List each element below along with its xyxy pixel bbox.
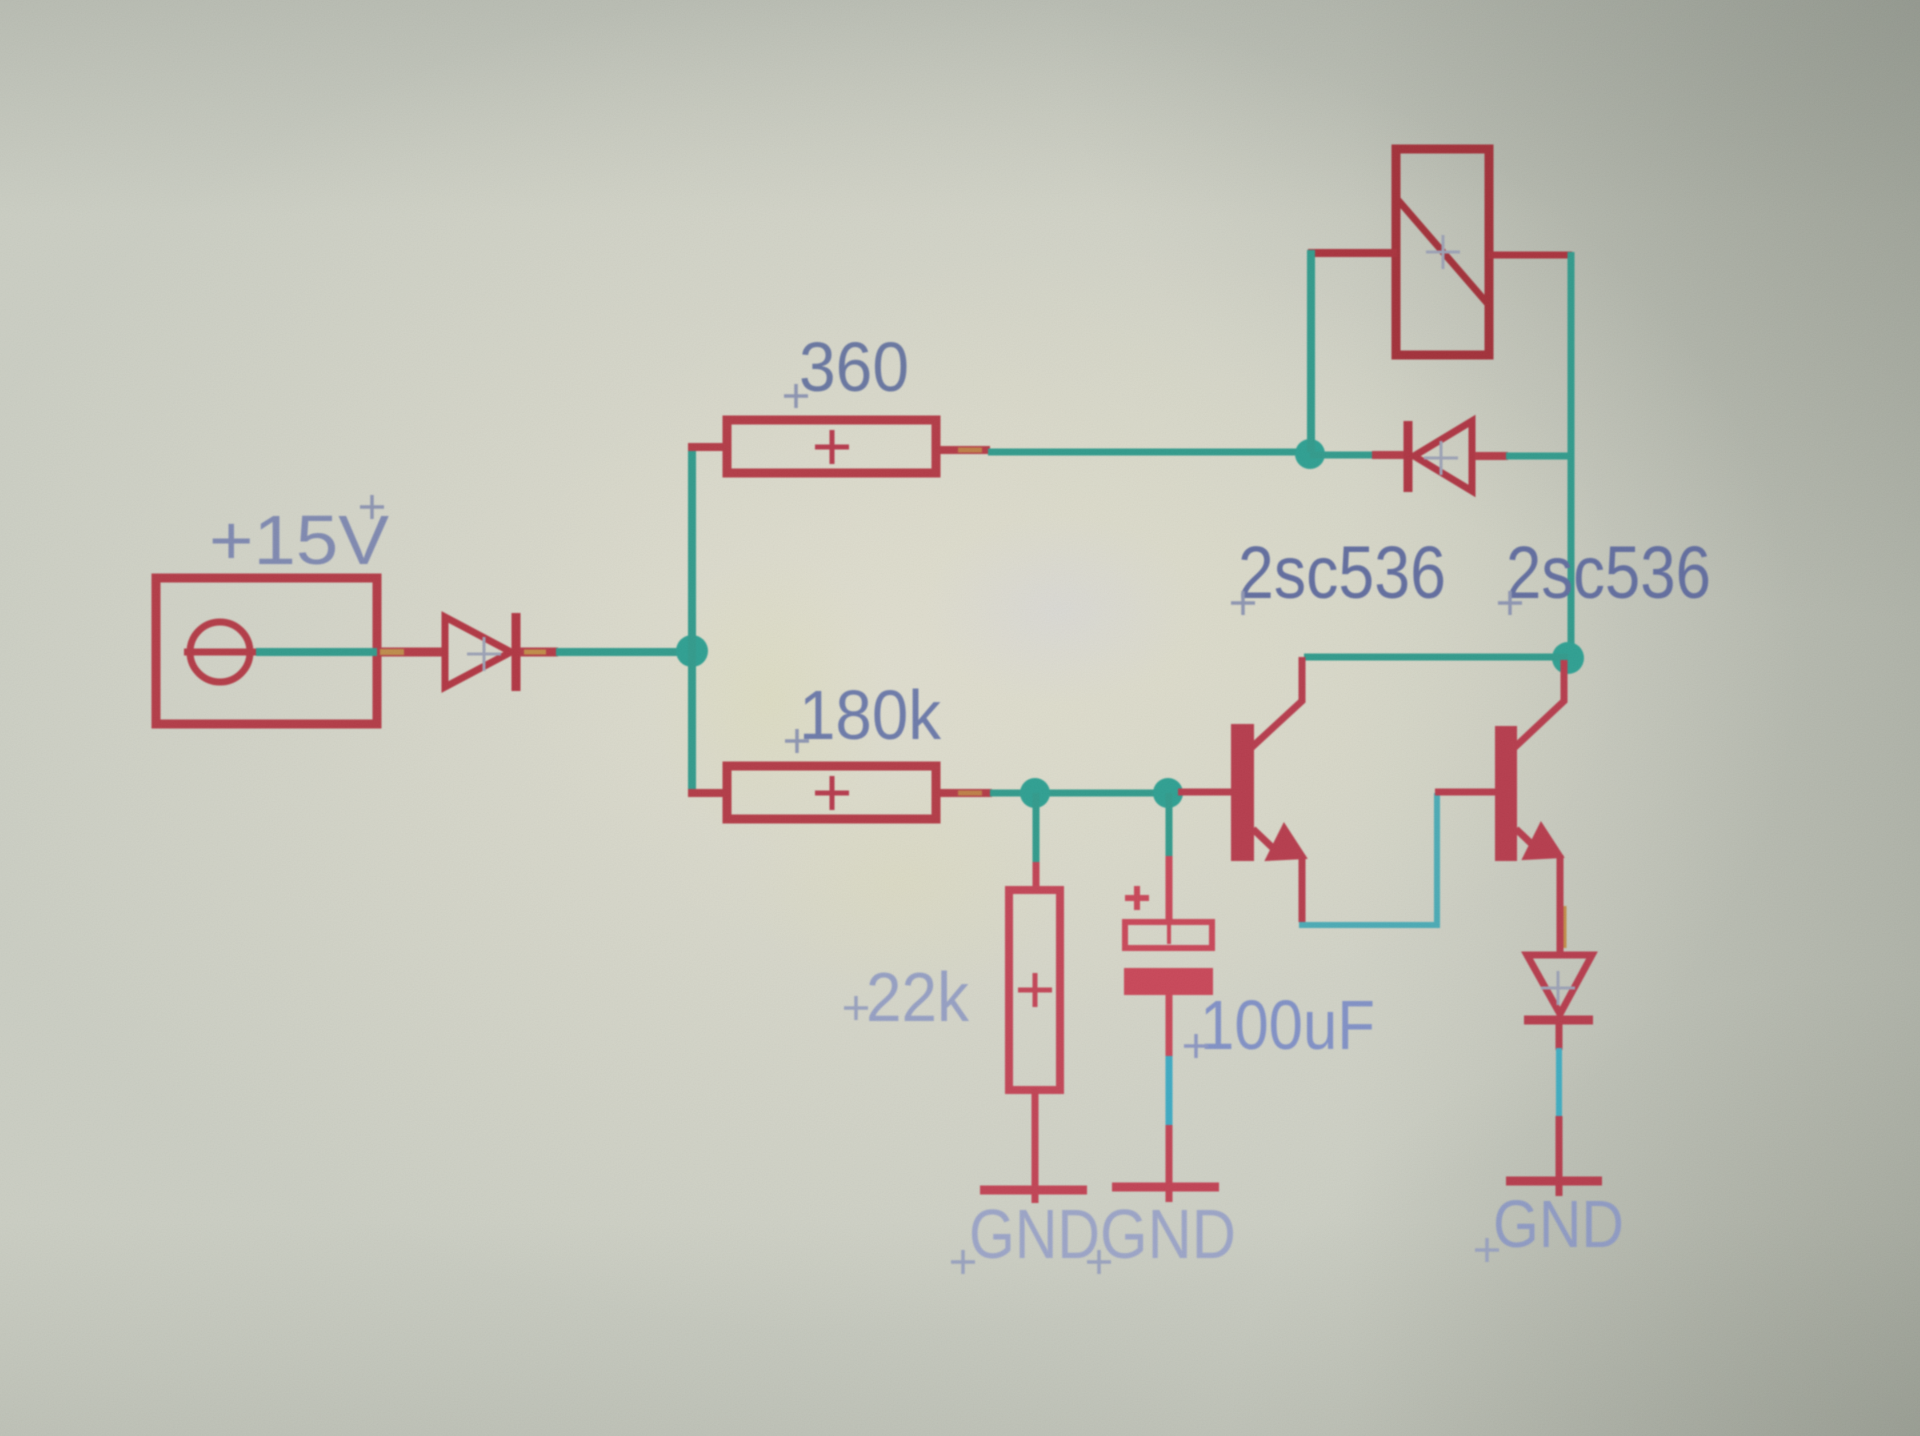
relay K1 coil box xyxy=(1396,149,1489,355)
origin cross of GND1 label xyxy=(951,1250,975,1274)
ground GND1 xyxy=(980,1186,1087,1195)
transistor Q1 collector xyxy=(1251,657,1302,748)
origin cross of D1 xyxy=(467,637,501,671)
transistor Q2 collector xyxy=(1514,660,1564,748)
pin dash orange R1 right xyxy=(958,448,982,453)
resistor R1 360 xyxy=(727,420,936,473)
wire stub D2 left xyxy=(1372,451,1406,459)
pin dash orange Q2 emitter xyxy=(1564,906,1567,948)
ground GND3 xyxy=(1506,1177,1602,1186)
wire Q1 emitter to Q2 base horizontal xyxy=(1299,922,1437,928)
wire R1 to node B xyxy=(988,449,1312,456)
wire stub R2 right xyxy=(936,789,992,797)
diode D2 flyback xyxy=(1408,421,1472,492)
node D junction dot xyxy=(1020,778,1050,808)
origin cross of +15V xyxy=(360,495,384,519)
wire stub relay left pin xyxy=(1308,249,1397,257)
wire stub supply to D1 xyxy=(377,648,444,657)
transistor Q2 base bar xyxy=(1495,726,1517,861)
origin cross of second 2sc536 xyxy=(1498,591,1522,615)
wire stub D1 right xyxy=(520,648,558,657)
origin cross of 180k label xyxy=(785,729,809,753)
wire D2 to right rail xyxy=(1506,453,1574,460)
pin dash orange R2 right xyxy=(958,791,982,796)
diode D3 xyxy=(1524,955,1593,1020)
origin cross of first 2sc536 xyxy=(1231,591,1255,615)
origin cross of GND2 label xyxy=(1087,1250,1111,1274)
wire right rail down xyxy=(1568,252,1575,658)
node A junction dot xyxy=(676,635,708,667)
wire stub relay right pin xyxy=(1488,252,1572,259)
origin cross of R3 xyxy=(1018,973,1052,1007)
transistor Q2 emitter xyxy=(1516,829,1537,849)
pin dash orange xyxy=(524,650,546,655)
wire D1 to node A xyxy=(556,648,692,656)
wire vertical branch bus xyxy=(688,447,696,793)
transistor Q1 base bar xyxy=(1231,724,1254,861)
pin dash orange xyxy=(380,649,404,655)
wire node C to Q1 collector xyxy=(1304,654,1568,661)
wire from supply circle xyxy=(256,648,377,656)
origin cross of D3 xyxy=(1541,971,1575,1005)
wire node E down to C1 xyxy=(1166,793,1173,858)
ground GND2 xyxy=(1112,1183,1219,1192)
origin cross of K1 xyxy=(1426,235,1460,269)
wire relay left down to node B xyxy=(1307,250,1315,452)
capacitor C1 lead tick xyxy=(1167,924,1171,944)
wire C1 to GND2 xyxy=(1166,1125,1173,1202)
capacitor C1 plus sign xyxy=(1125,886,1149,910)
wire D3 bottom red xyxy=(1556,1022,1563,1050)
resistor R3 22k xyxy=(1009,890,1060,1090)
wire stub D2 right xyxy=(1475,452,1508,460)
wire stub R1 right xyxy=(936,446,990,454)
capacitor C1 bottom plate xyxy=(1124,968,1213,995)
origin cross of D2 xyxy=(1424,441,1458,475)
origin cross of 100uF label xyxy=(1184,1034,1208,1058)
wire node B to D2 xyxy=(1310,452,1374,459)
wire Q1 emitter down xyxy=(1299,855,1306,922)
origin cross of 360 label xyxy=(784,384,808,408)
transistor Q1 emitter xyxy=(1253,829,1276,851)
origin cross of GND3 label xyxy=(1475,1238,1499,1262)
wire stub Q2 base xyxy=(1435,789,1496,796)
wire C1 bottom red xyxy=(1166,994,1173,1058)
wire stub Q1 base xyxy=(1178,789,1233,796)
supply symbol +15V xyxy=(156,578,377,724)
wire C1 bottom cyan xyxy=(1166,1056,1173,1127)
wire stub C1 top xyxy=(1166,856,1173,924)
diode D1 xyxy=(445,613,516,691)
wire D3 bottom cyan xyxy=(1556,1048,1562,1118)
node E junction dot xyxy=(1153,778,1183,808)
transistor Q1 emitter arrow xyxy=(1266,824,1306,860)
wire stub to R1 left xyxy=(688,443,728,451)
wire R2 to Q1 base xyxy=(990,790,1180,797)
transistor Q2 emitter arrow xyxy=(1523,823,1563,859)
origin cross of 22k label xyxy=(844,996,868,1020)
origin cross of R1 xyxy=(815,430,849,464)
resistor R2 180k xyxy=(727,766,936,819)
wire D3 to GND3 xyxy=(1556,1116,1563,1196)
capacitor C1 top plate xyxy=(1125,922,1212,948)
node B junction dot xyxy=(1295,439,1325,469)
wire up to Q2 base xyxy=(1434,793,1440,928)
node C junction dot xyxy=(1552,642,1584,674)
wire node D down to R3 xyxy=(1033,793,1040,864)
wire stub R3 top xyxy=(1033,862,1040,892)
origin cross of R2 xyxy=(815,776,849,810)
wire R3 bottom to GND1 xyxy=(1032,1088,1039,1203)
wire Q2 emitter down xyxy=(1557,855,1564,956)
wire stub to R2 left xyxy=(688,789,728,797)
